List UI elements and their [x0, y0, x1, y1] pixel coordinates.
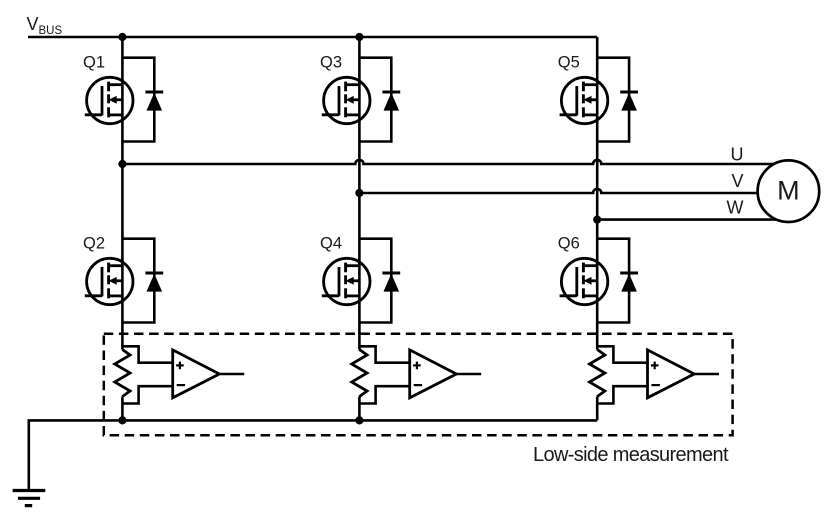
svg-text:Q1: Q1	[83, 54, 105, 72]
wire R1 bottom tap to op-amp - input	[122, 386, 172, 403]
svg-text:Q3: Q3	[320, 54, 342, 72]
transistor Q2	[83, 235, 133, 305]
node U junction	[118, 160, 126, 168]
wire VBUS top rail	[28, 36, 597, 39]
transistor Q5	[558, 54, 608, 124]
node W junction	[593, 216, 601, 224]
node: leg1 / bottom rail	[118, 416, 126, 424]
transistor Q4	[320, 235, 370, 305]
body diode of Q4	[359, 239, 400, 323]
resistor R1 shunt	[115, 350, 130, 397]
svg-text:BUS: BUS	[39, 25, 63, 37]
wire op-amp U1 output	[219, 373, 244, 376]
body diode of Q5	[597, 58, 638, 142]
transistor Q3	[320, 54, 370, 124]
svg-text:M: M	[777, 176, 800, 206]
wire phase W to motor	[597, 218, 776, 221]
transistor Q1	[83, 54, 133, 124]
wire R3 top tap to op-amp + input	[597, 346, 647, 362]
dashed box low-side measurement	[104, 334, 733, 436]
body diode of Q6	[597, 239, 638, 323]
wire op-amp U3 output	[694, 373, 719, 376]
op-amp U2	[410, 350, 457, 398]
wire R1 top tap to op-amp + input	[122, 346, 172, 362]
motor M	[758, 160, 820, 222]
net label VBUS	[27, 14, 63, 37]
wire half-bridge leg 3 vertical	[596, 37, 599, 420]
wire bottom rail to ground	[29, 420, 597, 489]
wire R3 bottom tap to op-amp - input	[597, 386, 647, 403]
wire R2 bottom tap to op-amp - input	[359, 386, 409, 403]
body diode of Q1	[122, 58, 163, 142]
svg-text:V: V	[732, 171, 744, 191]
node: leg1 / VBUS	[118, 33, 126, 41]
body diode of Q2	[122, 239, 163, 323]
transistor Q6	[558, 235, 608, 305]
wire half-bridge leg 1 vertical	[121, 37, 124, 420]
svg-text:Q4: Q4	[320, 235, 342, 253]
svg-text:W: W	[727, 198, 744, 218]
wire op-amp U2 output	[456, 373, 481, 376]
wire R2 top tap to op-amp + input	[359, 346, 409, 362]
svg-text:Q2: Q2	[83, 235, 105, 253]
svg-text:U: U	[731, 145, 744, 165]
svg-text:Q5: Q5	[558, 54, 580, 72]
resistor R3 shunt	[590, 350, 605, 397]
wire half-bridge leg 2 vertical	[358, 37, 361, 420]
svg-text:Low-side measurement: Low-side measurement	[533, 444, 729, 466]
svg-text:Q6: Q6	[558, 235, 580, 253]
node: leg2 / bottom rail	[355, 416, 363, 424]
resistor R2 shunt	[352, 350, 367, 397]
wire phase U to motor (hops over legs 2,3)	[122, 160, 774, 164]
body diode of Q3	[359, 58, 400, 142]
node V junction	[355, 189, 363, 197]
wire phase V to motor (hops over leg 3)	[359, 189, 757, 193]
node: leg2 / VBUS	[355, 33, 363, 41]
op-amp U1	[173, 350, 220, 398]
ground	[13, 491, 46, 506]
svg-text:V: V	[27, 14, 39, 34]
op-amp U3	[648, 350, 695, 398]
